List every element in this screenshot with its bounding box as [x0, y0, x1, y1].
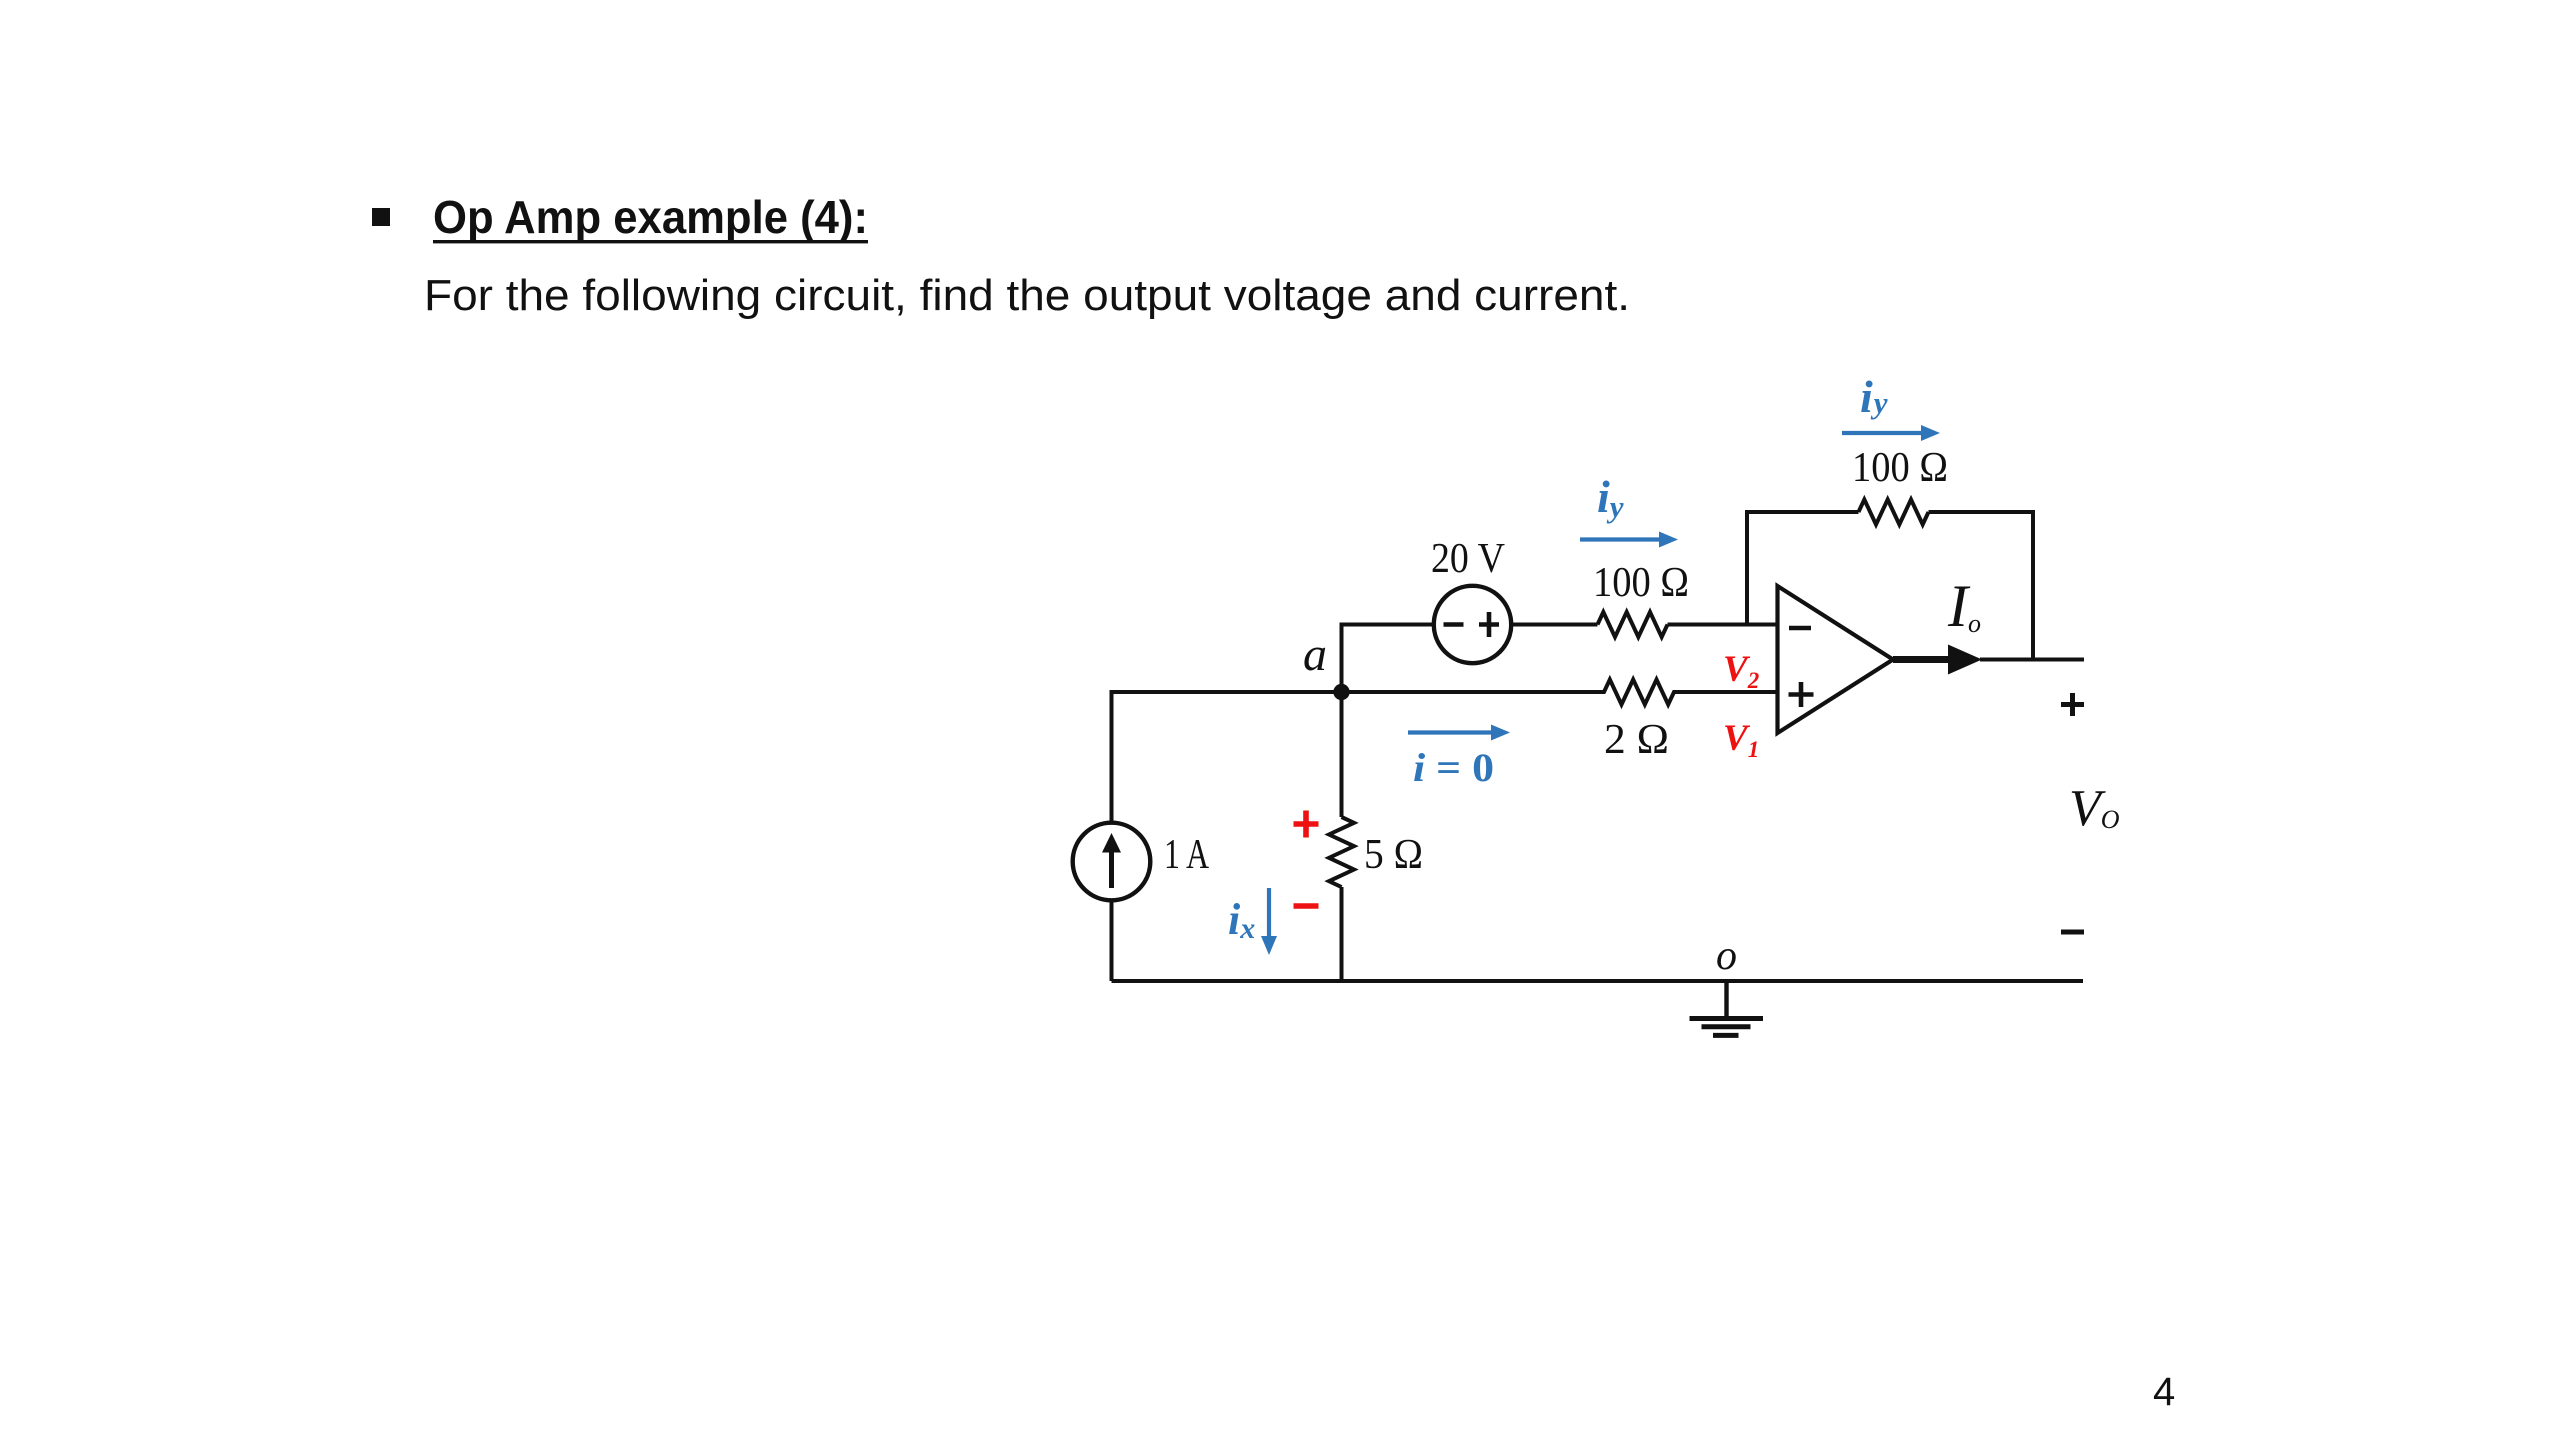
resistor 2 ohm with wires — [1342, 680, 1780, 705]
svg-text:5 Ω: 5 Ω — [1364, 832, 1423, 878]
wire: node a up and to voltage source — [1342, 625, 1434, 693]
svg-text:For the following circuit, fin: For the following circuit, find the outp… — [424, 271, 1630, 320]
bullet square — [372, 208, 390, 226]
resistor 100 ohm (feedback) — [1859, 500, 1929, 525]
ground — [1690, 981, 1764, 1035]
vsource plus sign — [1479, 612, 1499, 637]
Vo plus sign — [2061, 693, 2084, 716]
wire: vsource to 100ohm — [1511, 623, 1597, 627]
svg-text:4: 4 — [2153, 1370, 2175, 1414]
svg-text:100 Ω: 100 Ω — [1852, 445, 1948, 491]
blue i_y arrow (input) — [1580, 537, 1661, 541]
wire: 100ohm to op-amp minus input — [1668, 623, 1780, 627]
red plus (5 ohm) — [1294, 811, 1319, 838]
svg-text:Op Amp example (4):: Op Amp example (4): — [433, 191, 868, 243]
wire: 5 ohm bottom to rail — [1340, 887, 1344, 981]
wire: left rail top horizontal (node a line, left of node) — [1112, 692, 1342, 981]
resistor 100 ohm (input) — [1598, 612, 1668, 637]
svg-text:100 Ω: 100 Ω — [1593, 560, 1689, 606]
op-amp U1 triangle — [1778, 586, 1894, 733]
op-amp plus pin sign — [1789, 682, 1814, 707]
blue i_y arrow (feedback) — [1842, 431, 1923, 435]
vsource minus sign — [1444, 622, 1464, 627]
node a dot — [1333, 684, 1349, 700]
current source arrow — [1109, 852, 1114, 888]
feedback loop wires — [1747, 512, 2033, 660]
voltage source 20V circle — [1434, 586, 1511, 663]
red minus (5 ohm) — [1294, 903, 1319, 909]
svg-text:20 V: 20 V — [1431, 536, 1505, 582]
svg-text:i = 0: i = 0 — [1413, 745, 1494, 790]
op-amp minus pin sign — [1789, 626, 1811, 631]
wire: node a to 5 ohm resistor top — [1340, 692, 1344, 817]
svg-text:a: a — [1303, 628, 1327, 681]
title underline — [433, 240, 868, 243]
resistor 5 ohm (vertical zigzag) — [1329, 817, 1354, 887]
Vo minus sign — [2061, 930, 2084, 935]
svg-text:1 A: 1 A — [1164, 832, 1210, 878]
output wire with arrow — [1893, 656, 1950, 663]
wire: bottom rail — [1112, 979, 2084, 983]
current source 1A circle — [1073, 823, 1151, 901]
blue i = 0 arrow — [1408, 730, 1493, 734]
svg-text:o: o — [1716, 933, 1737, 979]
svg-text:2 Ω: 2 Ω — [1604, 717, 1669, 763]
blue i_x arrow — [1267, 888, 1271, 938]
